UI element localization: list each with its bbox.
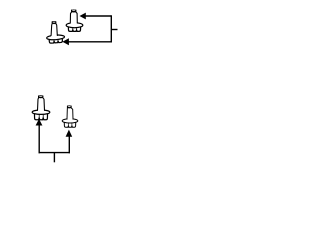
bolt B1 (upper-right flange bolt) [66,10,83,32]
bolt B4 (lower-right flange bolt) [62,106,78,128]
leader arrow to bolt B4 [66,130,73,154]
leader arrow to bolt B2 [62,38,111,45]
bolt B3 (lower-left flange bolt) [32,96,50,120]
tick stub to part label (bottom group) [53,153,55,163]
bolt B2 (upper-left flange bolt) [47,21,65,43]
bracket vertical joining top leaders [110,15,112,42]
leader arrow to bolt B3 [36,119,43,153]
leader arrow to bolt B1 [80,13,112,20]
tick stub to part label (top group) [111,29,117,31]
bracket horizontal joining bottom leaders [39,152,71,154]
